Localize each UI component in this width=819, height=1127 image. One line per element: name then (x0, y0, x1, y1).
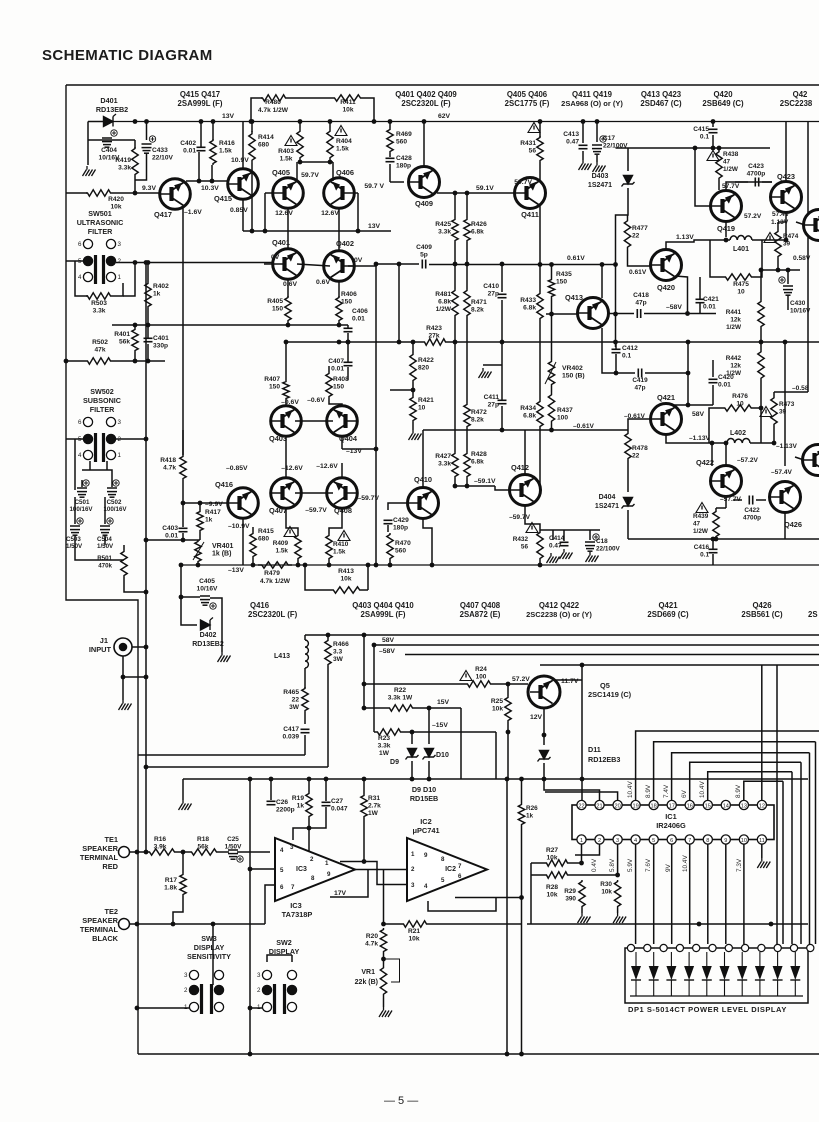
svg-text:C430: C430 (790, 300, 806, 307)
junction (324, 777, 329, 782)
svg-text:–1.13V: –1.13V (776, 443, 798, 450)
wire x377 down (375, 342, 377, 565)
svg-text:17V: 17V (334, 890, 347, 897)
wire J1 sleeve (123, 656, 146, 677)
resistor R411 (333, 95, 362, 101)
label 59.7V 409 (364, 183, 384, 190)
svg-text:Q421: Q421 (658, 601, 678, 610)
junction (248, 1006, 253, 1011)
svg-text:17: 17 (669, 804, 675, 810)
svg-text:59.7 V: 59.7 V (364, 183, 384, 190)
svg-text:R410: R410 (333, 541, 349, 548)
wire Q405 emitter (287, 208, 289, 249)
wire C428 bottom (389, 164, 391, 182)
label R437 (557, 407, 573, 422)
svg-text:C403: C403 (162, 525, 178, 532)
wire Q416 emitter (242, 517, 244, 565)
wire C402 bottom (198, 152, 200, 181)
wire R416 bottom (211, 165, 213, 181)
IC IC1 bottom pins (577, 835, 767, 844)
svg-text:560: 560 (396, 139, 407, 146)
svg-text:4: 4 (280, 847, 284, 854)
wire -59.1V row (455, 485, 495, 487)
capacitor C504 (100, 518, 113, 535)
svg-text:10k: 10k (601, 889, 612, 896)
svg-text:R21: R21 (408, 928, 420, 935)
svg-text:R470: R470 (395, 540, 411, 547)
label ULTRASONIC (77, 218, 124, 227)
wire C402 top (200, 122, 202, 148)
svg-text:RD13EB2: RD13EB2 (96, 105, 128, 114)
label Q402 (336, 239, 354, 248)
wire R474 tap (778, 221, 786, 223)
svg-text:6.8k: 6.8k (471, 229, 484, 236)
svg-text:R431: R431 (520, 140, 536, 147)
label Q401 (272, 238, 290, 247)
junction (711, 146, 716, 151)
svg-text:C406: C406 (352, 308, 368, 315)
label R20 (365, 933, 378, 948)
wire R408 top (328, 366, 330, 372)
warning mark R432 (526, 523, 538, 533)
wire R406 bottom (338, 322, 340, 325)
junction (248, 777, 253, 782)
wire C401 bottom (147, 344, 149, 361)
capacitor C18 (585, 534, 599, 551)
label C405 (197, 578, 219, 593)
svg-text:D404: D404 (599, 494, 616, 501)
wire R426 down (466, 242, 468, 289)
ground R432 (547, 553, 560, 563)
svg-text:Q401 Q402 Q409: Q401 Q402 Q409 (395, 90, 457, 99)
resistor R404 (327, 128, 333, 161)
svg-text:TE2: TE2 (104, 907, 118, 916)
svg-text:1: 1 (580, 838, 583, 844)
wire R475 left loop (710, 240, 724, 277)
svg-text:Q412 Q422: Q412 Q422 (539, 601, 580, 610)
label IC3 pins h (327, 871, 331, 878)
svg-text:R16: R16 (154, 836, 166, 843)
resistor R469 (387, 128, 393, 153)
svg-text:56k: 56k (197, 844, 208, 851)
wire R477 to Q420 (628, 250, 651, 266)
label VR1 (361, 969, 375, 976)
svg-text:1S2471: 1S2471 (595, 503, 619, 510)
wire row 405 (666, 404, 713, 406)
wire R432 bottom (539, 560, 541, 565)
label C430 (790, 300, 811, 315)
wire Q425 base stub (795, 457, 804, 460)
svg-text:R476: R476 (732, 393, 748, 400)
label C403 (162, 525, 178, 540)
wire Q417 collector down (182, 206, 184, 455)
wire R409 top (286, 507, 298, 534)
svg-text:1: 1 (325, 860, 329, 867)
label D402 (200, 632, 217, 639)
wire C433 bottom (135, 153, 147, 180)
wire 0.58V node (761, 269, 800, 271)
junction (580, 663, 585, 668)
svg-text:2: 2 (598, 838, 601, 844)
wire R442 bottom (760, 380, 762, 407)
transistor Q426 (770, 482, 801, 513)
label R472 (471, 409, 487, 424)
ground C18 (586, 552, 599, 562)
wire Q422 emitter (725, 497, 727, 508)
svg-text:1.5k: 1.5k (219, 148, 232, 155)
label R433 (520, 297, 536, 312)
svg-text:R433: R433 (520, 297, 536, 304)
svg-text:0V: 0V (271, 254, 280, 261)
svg-text:1: 1 (411, 851, 415, 858)
label Q412 Q422 footer (539, 601, 580, 610)
wire staircase drop (782, 781, 784, 944)
wire Q415 emitter down (242, 199, 244, 231)
label 58V bus (382, 637, 395, 644)
svg-text:59.7V: 59.7V (301, 172, 319, 179)
wire staircase drop (791, 772, 793, 944)
label R474 (783, 233, 799, 248)
resistor VR402 (548, 360, 554, 386)
label Q417 (154, 210, 172, 219)
svg-text:10.4V: 10.4V (627, 781, 634, 798)
resistor R409 (295, 534, 301, 560)
junction (388, 119, 393, 124)
wire Q426 collector (784, 342, 786, 466)
svg-text:R425: R425 (435, 221, 451, 228)
wire R421 bottom (412, 422, 414, 430)
wire x250 long (249, 779, 251, 1054)
label SENSITIVITY (187, 952, 231, 961)
svg-text:Q421: Q421 (657, 393, 675, 402)
svg-text:R409: R409 (273, 540, 289, 547)
resistor R410 (326, 534, 332, 560)
wire R403 top (299, 122, 301, 129)
junction (453, 340, 458, 345)
label C433 (152, 147, 174, 162)
wire C405 left (181, 596, 200, 598)
warning mark R409 (284, 527, 296, 537)
junction (422, 119, 427, 124)
wire C420 bottom (712, 385, 714, 405)
inductor L401 (730, 235, 752, 240)
wire row540 (146, 539, 200, 541)
svg-text:0.61V: 0.61V (629, 269, 647, 276)
svg-text:DP1 S-5014CT POWER LEVEL: DP1 S-5014CT POWER LEVEL DISPLAY (628, 1005, 787, 1014)
svg-text:BLACK: BLACK (92, 934, 119, 943)
svg-text:7.3V: 7.3V (736, 858, 743, 872)
wire bus 4 (540, 664, 819, 666)
svg-text:13: 13 (741, 804, 747, 810)
svg-text:10.3V: 10.3V (201, 185, 219, 192)
wire C26 top (270, 779, 272, 800)
svg-text:0.01: 0.01 (352, 316, 365, 323)
svg-text:Q405 Q406: Q405 Q406 (507, 90, 548, 99)
junction (362, 706, 367, 711)
junction (135, 850, 140, 855)
label R409 (273, 540, 289, 555)
resistor R22 (388, 705, 414, 711)
svg-text:0.85V: 0.85V (230, 207, 248, 214)
wire x688 down (687, 342, 689, 405)
label -59.7V b (357, 495, 379, 502)
label R480 (265, 99, 281, 106)
wire staircase (744, 781, 783, 801)
label INPUT (89, 645, 112, 654)
wire IC1 pin down (743, 844, 745, 944)
svg-text:0.01: 0.01 (703, 304, 716, 311)
svg-text:R422: R422 (418, 357, 434, 364)
resistor R425 (452, 218, 458, 242)
resistor R473 (771, 396, 777, 426)
svg-text:59.7V: 59.7V (514, 179, 532, 186)
junction (135, 922, 140, 927)
wire R435 top (551, 265, 553, 279)
svg-text:58V: 58V (382, 637, 395, 644)
connector TE2 (119, 919, 130, 930)
label IR2406G (656, 821, 686, 830)
wire C416 top (712, 539, 714, 549)
label 100/16V b (103, 506, 127, 513)
wire C421 top (699, 277, 701, 299)
junction (505, 777, 510, 782)
junction (613, 340, 618, 345)
svg-text:SW501: SW501 (88, 209, 112, 218)
svg-text:Q415 Q417: Q415 Q417 (180, 90, 220, 99)
label Q411 Q419 header (572, 90, 613, 99)
label 0.61V q420 (629, 269, 647, 276)
label -57.2V (737, 457, 759, 464)
wire C421 bottom (699, 303, 701, 314)
wire -58V row (628, 538, 819, 540)
svg-text:–0.6V: –0.6V (307, 397, 325, 404)
label R432 (513, 536, 529, 551)
svg-text:10k: 10k (492, 706, 503, 713)
wire SW502 bottom row (82, 470, 112, 480)
label -58V (666, 304, 682, 311)
junction (133, 359, 138, 364)
junction (337, 340, 342, 345)
svg-text:1/2W: 1/2W (723, 166, 739, 173)
resistor R472 (464, 403, 470, 428)
label R19 (292, 795, 304, 810)
transistor Q404 (327, 406, 358, 437)
svg-text:4: 4 (424, 883, 428, 890)
wire 13V/62V rail (112, 121, 819, 123)
junction (542, 733, 547, 738)
svg-text:680: 680 (258, 142, 269, 149)
diode D9 (406, 749, 419, 760)
wire Q417 emitter to Q415 base (186, 180, 227, 182)
label Q407 (269, 506, 287, 515)
svg-text:330p: 330p (153, 343, 168, 350)
label SPEAKER1 (82, 844, 118, 853)
resistor R466 (325, 639, 331, 666)
svg-text:6: 6 (78, 241, 82, 248)
wire R17 top (182, 852, 184, 873)
wire VR1 bottom (383, 998, 385, 1007)
label R21 (408, 928, 420, 943)
svg-text:3: 3 (118, 241, 122, 248)
label 2SA968 header (561, 99, 623, 108)
label IC2 pins c (411, 882, 415, 889)
label C429 (393, 517, 409, 532)
junction (784, 238, 789, 243)
svg-text:57.4V: 57.4V (772, 211, 790, 218)
resistor R416 (210, 139, 216, 165)
svg-text:C18: C18 (596, 538, 608, 545)
wire Q410 base (388, 503, 407, 510)
wire 0.61V row (429, 264, 616, 266)
resistor R434 (537, 400, 543, 428)
label R422 (418, 357, 434, 372)
svg-text:0.47: 0.47 (549, 543, 562, 550)
label RD15EB (410, 794, 438, 803)
wire input vertical (145, 263, 147, 853)
wire R411 right (362, 98, 374, 122)
capacitor C413 (579, 145, 588, 148)
label R17 (164, 877, 177, 892)
label C416 (694, 544, 710, 559)
wire Q424 base stub (796, 222, 805, 225)
label 2SC2320L header (401, 99, 451, 108)
wire Q409 base (390, 181, 404, 183)
svg-text:20: 20 (614, 804, 620, 810)
wire Q419 emitter (725, 222, 727, 237)
wire C415 top (712, 122, 714, 128)
junction (388, 563, 393, 568)
svg-text:Q416: Q416 (215, 480, 233, 489)
wire C504 bottom (104, 535, 106, 545)
resistor R465 (302, 687, 308, 712)
ground C413 (579, 160, 592, 170)
label C406 (352, 308, 368, 323)
junction (615, 873, 620, 878)
resistor R19 (306, 792, 312, 818)
wire R416 top (212, 122, 214, 141)
wire R503 right (112, 283, 123, 296)
svg-text:100: 100 (476, 674, 487, 681)
wire R438 top (718, 148, 720, 150)
svg-text:0.039: 0.039 (282, 734, 299, 741)
label 2SC2320L footer (248, 610, 298, 619)
svg-text:R502: R502 (92, 339, 108, 346)
svg-text:3.3k: 3.3k (93, 308, 106, 315)
resistor R438 (716, 150, 722, 180)
svg-text:10/16V: 10/16V (197, 586, 219, 593)
wire R24 row (364, 683, 466, 685)
junction (362, 633, 367, 638)
svg-text:Q417: Q417 (154, 210, 172, 219)
svg-text:4: 4 (78, 274, 82, 281)
wire staircase (654, 742, 816, 801)
svg-text:C404: C404 (101, 147, 117, 154)
label 2SC1419 (588, 690, 632, 699)
label 57.7V (722, 183, 740, 190)
capacitor C404 (102, 130, 117, 147)
wire J1 tip (132, 646, 146, 648)
svg-text:3.3k: 3.3k (438, 229, 451, 236)
label R421 (418, 397, 434, 412)
wire C422 right (756, 499, 766, 501)
junction (776, 268, 781, 273)
wire R473 top (773, 392, 775, 396)
svg-text:150 (B): 150 (B) (562, 373, 585, 380)
label 22k (355, 979, 378, 986)
svg-text:12k: 12k (730, 363, 741, 370)
label IC2 pins a (411, 851, 415, 858)
noop (527, 874, 531, 876)
wire gnd stub (182, 779, 184, 800)
svg-text:–59.7V: –59.7V (357, 495, 379, 502)
wire R414 bottom (251, 163, 253, 231)
capacitor C433 (142, 136, 156, 153)
svg-text:–15V: –15V (432, 722, 448, 729)
label SW502 (90, 387, 114, 396)
label R501 (97, 555, 112, 570)
junction (179, 595, 184, 600)
junction (199, 119, 204, 124)
label Q5 (600, 681, 610, 690)
svg-text:–59.7V: –59.7V (509, 514, 531, 521)
junction (693, 146, 698, 151)
label -9.9V (205, 501, 223, 508)
svg-text:6.8k: 6.8k (523, 305, 536, 312)
wire R469 top (389, 122, 391, 129)
label 2SA872 footer (460, 610, 501, 619)
resistor R417 (197, 510, 203, 532)
wire R21 right (428, 923, 522, 925)
svg-text:2S: 2S (808, 610, 818, 619)
junction (146, 359, 151, 364)
wire C410 top (501, 264, 503, 292)
wire R17 down (173, 896, 183, 924)
resistor R431 (537, 136, 543, 162)
wire Q5 emitter (543, 708, 545, 745)
svg-text:11: 11 (759, 838, 765, 844)
wire row 924 (527, 923, 808, 925)
label D11 (588, 745, 601, 754)
wire R27 drop (530, 863, 532, 924)
wire C25 to IC3 (237, 851, 270, 853)
label 2SA999L footer (361, 610, 406, 619)
svg-text:R432: R432 (513, 536, 529, 543)
wire IC2 fb loop (428, 898, 496, 911)
ground C404 (83, 166, 96, 176)
label C410 (483, 283, 499, 298)
resistor R501 (121, 550, 127, 577)
junction (427, 706, 432, 711)
wire C401 top (147, 325, 149, 338)
label R477 (632, 225, 648, 240)
label J1 (100, 636, 108, 645)
wire C501 lead (74, 487, 76, 490)
label IC1 (665, 812, 677, 821)
capacitor C430 (779, 277, 793, 295)
label IC2 pins i (424, 883, 428, 890)
label 0V a (271, 254, 280, 261)
svg-text:R423: R423 (426, 325, 442, 332)
ground common (179, 800, 192, 810)
svg-text:L402: L402 (730, 430, 746, 437)
label Q409 (415, 199, 433, 208)
wire C503 top (74, 497, 76, 524)
label TE1 (104, 835, 118, 844)
svg-text:2: 2 (118, 258, 122, 265)
junction (717, 146, 722, 151)
transistor Q409 (409, 167, 440, 198)
svg-text:2SA968 (O) or (Y): 2SA968 (O) or (Y) (561, 99, 623, 108)
